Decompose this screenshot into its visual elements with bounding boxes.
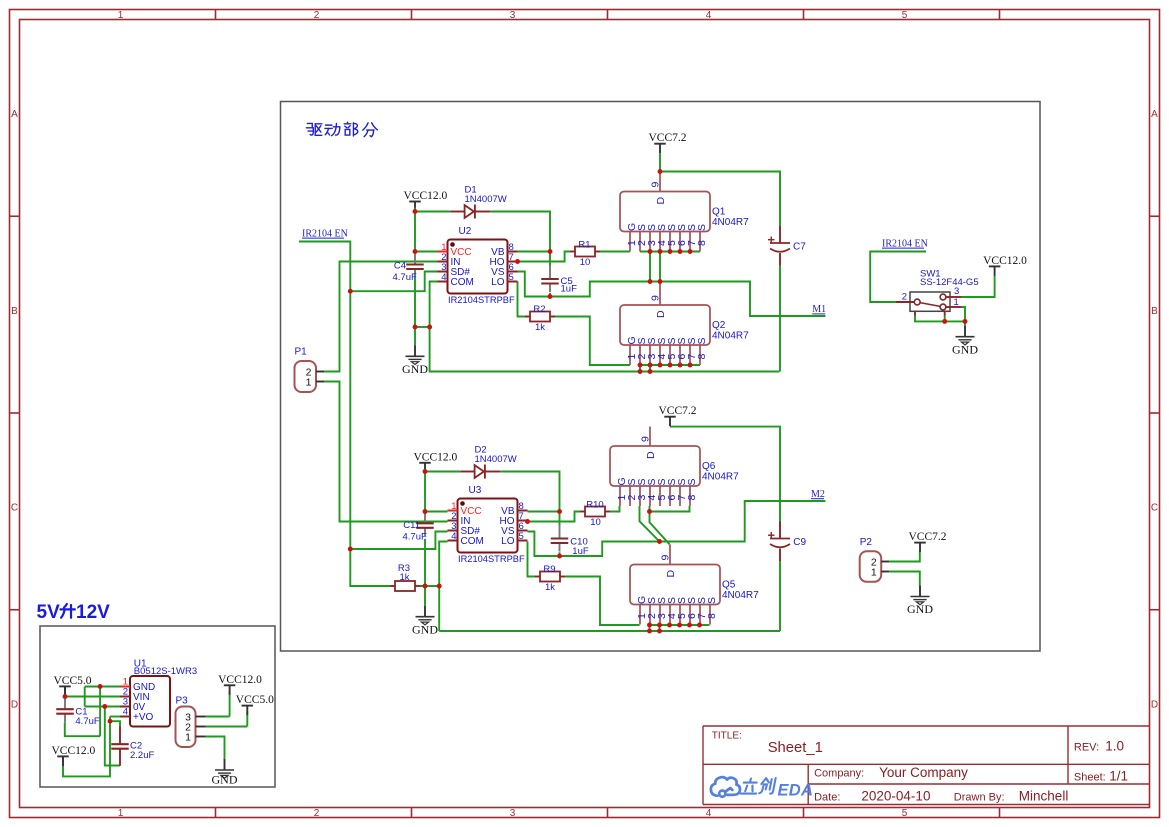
- svg-text:Sheet_1: Sheet_1: [768, 740, 823, 756]
- svg-text:5V: 5V: [37, 602, 61, 623]
- svg-text:Q5: Q5: [722, 580, 736, 591]
- svg-text:9: 9: [660, 555, 672, 561]
- svg-text:Your Company: Your Company: [879, 765, 968, 780]
- svg-text:VCC5.0: VCC5.0: [236, 694, 274, 706]
- svg-text:LO: LO: [501, 536, 515, 547]
- svg-text:Date:: Date:: [814, 791, 840, 803]
- svg-text:4N04R7: 4N04R7: [702, 472, 739, 483]
- svg-text:VCC7.2: VCC7.2: [909, 531, 947, 543]
- svg-text:1N4007W: 1N4007W: [465, 194, 507, 205]
- svg-text:1k: 1k: [399, 572, 409, 583]
- svg-text:3: 3: [954, 286, 959, 297]
- svg-text:4: 4: [451, 531, 456, 542]
- svg-text:D: D: [665, 570, 677, 578]
- svg-text:1k: 1k: [545, 582, 555, 593]
- svg-text:P3: P3: [176, 696, 189, 707]
- svg-text:VCC12.0: VCC12.0: [404, 190, 448, 202]
- svg-text:D: D: [1151, 699, 1158, 710]
- svg-text:1uF: 1uF: [572, 546, 589, 557]
- svg-text:VCC12.0: VCC12.0: [52, 745, 96, 757]
- svg-text:A: A: [1151, 109, 1158, 120]
- svg-text:1: 1: [306, 376, 312, 388]
- svg-text:1: 1: [118, 808, 124, 819]
- svg-text:C7: C7: [793, 241, 806, 252]
- svg-text:9: 9: [640, 436, 652, 442]
- svg-text:C: C: [11, 503, 18, 514]
- svg-text:C: C: [1151, 503, 1158, 514]
- svg-text:D: D: [655, 197, 667, 205]
- svg-text:Drawn By:: Drawn By:: [954, 791, 1005, 803]
- svg-text:B: B: [1151, 306, 1158, 317]
- svg-text:GND: GND: [212, 773, 238, 787]
- svg-text:9: 9: [650, 182, 662, 188]
- svg-text:D: D: [11, 699, 18, 710]
- svg-text:GND: GND: [907, 602, 933, 616]
- svg-text:5: 5: [509, 272, 514, 283]
- svg-text:10: 10: [580, 257, 591, 268]
- svg-text:VCC12.0: VCC12.0: [414, 451, 458, 463]
- svg-text:C11: C11: [403, 520, 420, 531]
- svg-text:+VO: +VO: [133, 712, 154, 723]
- svg-text:C4: C4: [394, 260, 406, 271]
- svg-text:COM: COM: [461, 536, 484, 547]
- svg-text:2.2uF: 2.2uF: [130, 750, 154, 761]
- svg-text:Sheet:: Sheet:: [1074, 772, 1106, 784]
- svg-text:3: 3: [510, 808, 516, 819]
- svg-text:P2: P2: [860, 537, 873, 548]
- svg-text:1: 1: [185, 731, 191, 743]
- svg-text:1N4007W: 1N4007W: [475, 454, 517, 465]
- svg-text:2: 2: [314, 10, 320, 21]
- svg-text:3: 3: [510, 10, 516, 21]
- svg-text:IR2104STRPBF: IR2104STRPBF: [448, 295, 515, 305]
- svg-text:4: 4: [706, 808, 712, 819]
- svg-text:C9: C9: [793, 537, 806, 548]
- svg-text:1: 1: [118, 10, 124, 21]
- svg-text:5: 5: [902, 808, 908, 819]
- svg-text:EDA: EDA: [778, 781, 814, 799]
- svg-text:D: D: [655, 310, 667, 318]
- svg-text:GND: GND: [402, 362, 428, 376]
- svg-text:R2: R2: [533, 304, 545, 315]
- svg-text:1: 1: [954, 297, 959, 308]
- svg-text:4: 4: [441, 272, 446, 283]
- svg-text:Q6: Q6: [702, 461, 716, 472]
- svg-text:4N04R7: 4N04R7: [722, 590, 759, 601]
- svg-text:D: D: [645, 451, 657, 459]
- svg-text:Q2: Q2: [712, 320, 726, 331]
- svg-text:B: B: [11, 306, 18, 317]
- svg-text:1.0: 1.0: [1105, 739, 1124, 754]
- svg-text:2020-04-10: 2020-04-10: [861, 789, 930, 804]
- svg-text:IR2104STRPBF: IR2104STRPBF: [458, 554, 525, 564]
- svg-text:2: 2: [314, 808, 320, 819]
- svg-text:S: S: [696, 224, 708, 231]
- svg-text:VCC7.2: VCC7.2: [659, 405, 697, 417]
- svg-text:GND: GND: [952, 342, 978, 356]
- svg-text:COM: COM: [451, 277, 474, 288]
- svg-text:4N04R7: 4N04R7: [712, 217, 749, 228]
- svg-text:S: S: [686, 478, 698, 485]
- svg-text:S: S: [706, 597, 718, 604]
- svg-text:Minchell: Minchell: [1019, 789, 1069, 804]
- svg-text:4.7uF: 4.7uF: [403, 531, 427, 542]
- svg-text:4N04R7: 4N04R7: [712, 331, 749, 342]
- svg-text:4.7uF: 4.7uF: [75, 716, 99, 727]
- svg-text:S: S: [696, 337, 708, 344]
- svg-text:8: 8: [706, 613, 718, 619]
- svg-text:R1: R1: [578, 239, 590, 250]
- svg-text:2: 2: [902, 292, 907, 303]
- svg-text:R9: R9: [543, 564, 555, 575]
- svg-text:1/1: 1/1: [1109, 769, 1128, 784]
- svg-text:12V: 12V: [76, 602, 110, 623]
- svg-text:SS-12F44-G5: SS-12F44-G5: [920, 277, 979, 288]
- svg-text:10: 10: [590, 517, 601, 528]
- svg-text:8: 8: [686, 495, 698, 501]
- svg-text:9: 9: [650, 295, 662, 301]
- svg-text:4.7uF: 4.7uF: [393, 272, 417, 283]
- svg-text:4: 4: [706, 10, 712, 21]
- svg-text:B0512S-1WR3: B0512S-1WR3: [134, 666, 197, 677]
- svg-text:5: 5: [902, 10, 908, 21]
- svg-text:U2: U2: [459, 226, 472, 237]
- svg-text:VCC5.0: VCC5.0: [54, 675, 92, 687]
- svg-text:P1: P1: [295, 347, 308, 358]
- svg-text:GND: GND: [412, 622, 438, 636]
- svg-text:Q1: Q1: [712, 207, 726, 218]
- svg-text:LO: LO: [491, 277, 505, 288]
- svg-text:A: A: [11, 109, 18, 120]
- svg-text:VCC12.0: VCC12.0: [983, 255, 1027, 267]
- svg-text:U3: U3: [469, 485, 482, 496]
- svg-text:5: 5: [519, 531, 524, 542]
- svg-text:1k: 1k: [535, 322, 545, 333]
- svg-text:VCC7.2: VCC7.2: [649, 132, 687, 144]
- svg-text:VCC12.0: VCC12.0: [218, 674, 262, 686]
- svg-text:1: 1: [871, 566, 877, 578]
- svg-text:REV:: REV:: [1074, 742, 1099, 754]
- svg-text:TITLE:: TITLE:: [712, 731, 742, 742]
- svg-text:8: 8: [696, 354, 708, 360]
- svg-text:Company:: Company:: [814, 768, 864, 780]
- svg-text:1uF: 1uF: [561, 284, 578, 295]
- svg-text:4: 4: [123, 707, 128, 718]
- svg-text:R10: R10: [586, 499, 603, 510]
- svg-text:8: 8: [696, 240, 708, 246]
